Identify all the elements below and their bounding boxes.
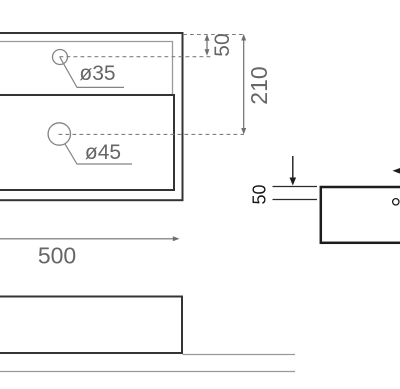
- side view body: [321, 187, 400, 243]
- svg-text:ø35: ø35: [79, 62, 115, 85]
- overflow hole circle in side view: [393, 199, 399, 205]
- extension line at rim depth: [273, 199, 318, 201]
- dashed datum line at basin top edge: [183, 34, 244, 36]
- svg-text:50: 50: [249, 184, 269, 204]
- lower wall line: [0, 371, 295, 373]
- wall line right of front view: [183, 354, 296, 356]
- top view: bowl opening: [0, 95, 174, 190]
- drain hole circle ø45: [48, 123, 70, 145]
- dimension line 50 (faucet offset): [205, 34, 210, 55]
- svg-text:50: 50: [211, 33, 234, 56]
- leader line for ø35: [60, 57, 124, 87]
- faucet hole circle ø35: [53, 50, 68, 65]
- extension line at side view top: [273, 186, 318, 188]
- down arrow for 50 dimension (side view): [290, 156, 297, 186]
- top view: inner rim edge: [0, 42, 173, 97]
- svg-text:500: 500: [38, 243, 76, 269]
- svg-text:ø45: ø45: [85, 141, 121, 164]
- left arrowhead of side width dimension (cut off): [393, 168, 400, 174]
- svg-text:210: 210: [246, 66, 272, 104]
- dimension line 210: [241, 34, 246, 135]
- dashed centerline through faucet hole: [60, 56, 211, 58]
- dimension line 500 (width): [0, 236, 180, 241]
- dashed centerline through drain hole: [59, 133, 245, 135]
- leader line for ø45: [65, 144, 132, 164]
- top view: outer basin body: [0, 33, 183, 200]
- front view body: [0, 297, 182, 354]
